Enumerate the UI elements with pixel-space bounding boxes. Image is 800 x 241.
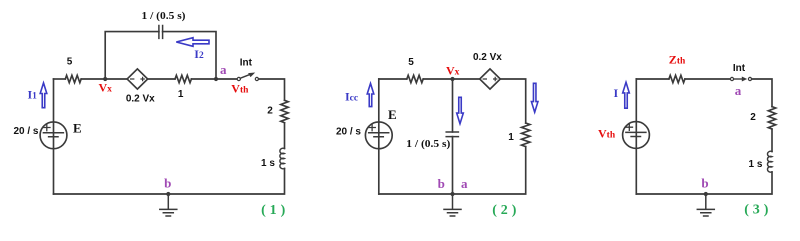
- wire: R5 to Vx (circuit 2): [423, 78, 452, 80]
- switch Int open (circuit 1): [237, 77, 240, 80]
- svg-text:0.2 Vx: 0.2 Vx: [473, 52, 502, 63]
- svg-text:( 2 ): ( 2 ): [492, 203, 516, 218]
- wire: capacitor branch right side (circuit 1): [163, 32, 216, 79]
- svg-text:0.2 Vx: 0.2 Vx: [126, 93, 155, 104]
- voltage source E (circuit 1): [40, 122, 67, 149]
- wire: inductor to bottom, bottom wire (circuit 3): [636, 172, 772, 194]
- wire: R1 to bottom-right corner, bottom wire (circuit 2): [379, 147, 526, 194]
- wire: Vx to diamond (circuit 2): [453, 78, 480, 80]
- wire: middle branch lower (circuit 2): [452, 137, 454, 194]
- svg-text:Int: Int: [733, 63, 746, 74]
- wire: middle branch upper (circuit 2): [452, 79, 454, 132]
- svg-text:1: 1: [508, 132, 514, 143]
- capacitor 1/(0.5 s) (circuit 2): [446, 132, 458, 137]
- wire: top-left segment (circuit 1): [54, 78, 66, 80]
- wire: top-left segment (circuit 3): [636, 78, 669, 80]
- wire: top-left segment (circuit 2): [379, 78, 407, 80]
- wire: switch to top-right corner (circuit 3): [752, 79, 772, 107]
- wire: R2 to inductor (circuit 1): [284, 123, 286, 149]
- svg-text:5: 5: [408, 57, 414, 68]
- voltage source Vth (circuit 3): [623, 122, 650, 149]
- resistor Zth (circuit 3): [669, 75, 685, 82]
- svg-text:b: b: [438, 176, 445, 191]
- svg-text:2: 2: [267, 106, 273, 117]
- node b dot (circuit 3): [704, 192, 708, 196]
- svg-text:2: 2: [750, 112, 756, 123]
- svg-text:I: I: [614, 86, 619, 100]
- wire: diamond to R1 (circuit 1): [148, 78, 175, 80]
- ground (circuit 3): [697, 194, 714, 216]
- svg-text:a: a: [220, 62, 227, 77]
- current arrow I2 (circuit 1): [176, 38, 209, 47]
- wire: left branch (circuit 2): [378, 79, 380, 194]
- inductor 1 s (circuit 1): [280, 148, 285, 169]
- resistor 1 (circuit 1): [175, 75, 191, 82]
- resistor 1 (circuit 2): [522, 123, 530, 147]
- node b-a dot (circuit 2): [450, 192, 454, 196]
- voltage source E (circuit 2): [365, 122, 392, 149]
- svg-text:Int: Int: [240, 58, 253, 69]
- resistor 5 (circuit 2): [407, 75, 423, 82]
- wire: capacitor branch left vertical and top (circuit 1): [105, 32, 159, 79]
- resistor 2 (circuit 3): [768, 107, 775, 129]
- wire: node a to switch (circuit 1): [216, 78, 237, 80]
- svg-text:E: E: [73, 121, 82, 136]
- svg-text:1 s: 1 s: [261, 158, 275, 169]
- wire: left branch (circuit 3): [635, 79, 637, 194]
- svg-text:( 3 ): ( 3 ): [744, 202, 768, 217]
- svg-text:a: a: [735, 83, 742, 98]
- current arrow Icc (circuit 2): [367, 83, 374, 106]
- dependent source 0.2 Vx diamond (circuit 1): [127, 69, 148, 89]
- capacitor 1/(0.5 s) (circuit 1): [159, 26, 163, 39]
- resistor 5 (circuit 1): [65, 75, 81, 82]
- svg-text:b: b: [164, 175, 171, 190]
- svg-text:a: a: [461, 176, 468, 191]
- svg-text:20 / s: 20 / s: [336, 127, 361, 138]
- wire: inductor to bottom, bottom wire (circuit 1): [54, 169, 285, 195]
- svg-text:1 / (0.5 s): 1 / (0.5 s): [406, 138, 450, 150]
- wire: switch to top-right corner (circuit 1): [259, 79, 285, 100]
- wire: Zth to switch (circuit 3): [685, 78, 731, 80]
- dependent source 0.2 Vx diamond (circuit 2): [480, 69, 501, 89]
- wire: Vx to diamond (circuit 1): [105, 78, 127, 80]
- svg-text:1 s: 1 s: [749, 159, 763, 170]
- svg-text:b: b: [701, 175, 708, 190]
- ground (circuit 2): [444, 194, 461, 216]
- svg-text:( 1 ): ( 1 ): [261, 203, 285, 218]
- node a dot (circuit 1): [214, 77, 218, 81]
- svg-text:5: 5: [67, 56, 73, 67]
- node Vx dot (circuit 2): [450, 77, 454, 81]
- wire: diamond to top-right corner (circuit 2): [500, 79, 525, 123]
- current arrow I (circuit 3): [623, 82, 630, 108]
- current arrow middle branch down (circuit 2): [457, 97, 464, 123]
- node Vx dot (circuit 1): [103, 77, 107, 81]
- node b dot (circuit 1): [166, 192, 170, 196]
- wire: R1 to node a (circuit 1): [191, 78, 216, 80]
- svg-text:1 / (0.5 s): 1 / (0.5 s): [142, 10, 186, 22]
- svg-text:1: 1: [178, 89, 184, 100]
- wire: left branch (circuit 1): [53, 79, 55, 194]
- svg-text:20 / s: 20 / s: [13, 126, 38, 137]
- inductor 1 s (circuit 3): [767, 151, 772, 172]
- ground (circuit 1): [160, 194, 177, 216]
- switch Int closed (circuit 3): [730, 77, 733, 80]
- current arrow right branch down (circuit 2): [531, 83, 538, 112]
- resistor 2 (circuit 1): [281, 100, 288, 122]
- svg-text:E: E: [388, 107, 397, 122]
- wire: R5 to Vx (circuit 1): [81, 78, 105, 80]
- wire: R2 to inductor (circuit 3): [771, 129, 773, 151]
- current arrow I1 (circuit 1): [40, 83, 47, 108]
